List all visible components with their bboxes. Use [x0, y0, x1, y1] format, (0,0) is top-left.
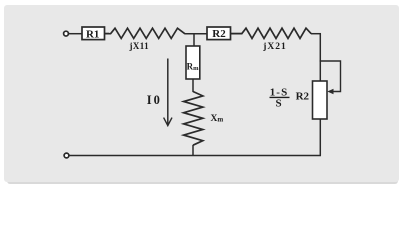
resistor Rm [186, 46, 200, 79]
rheostat wiper arm [320, 61, 341, 92]
rheostat (1-S)/S R2 box [313, 81, 328, 119]
inductor jX11 [105, 28, 185, 51]
resistor R2 [207, 27, 231, 40]
inductor jX21 [231, 28, 312, 52]
panel shadow [7, 9, 398, 184]
wire R1 to jX11 [105, 33, 110, 35]
wire Rm to Xm [192, 79, 194, 92]
rheostat wiper arrowhead [327, 89, 333, 95]
inductor Xm [184, 92, 224, 146]
svg-text:R2: R2 [296, 91, 310, 103]
wire terminal T1 to R1 [69, 33, 83, 35]
wire right vertical (top) [319, 34, 321, 81]
svg-text:I0: I0 [147, 93, 162, 107]
terminal T2 (bottom left) [64, 153, 69, 158]
svg-text:jX21: jX21 [262, 42, 287, 52]
wire node to Rm [193, 34, 195, 46]
wire jX21 to right corner [311, 33, 321, 35]
label fraction (1-S)/S [270, 86, 290, 109]
wire jX11 to R2 with node junction [185, 33, 208, 35]
current arrow I0 [147, 59, 172, 126]
svg-text:R1: R1 [86, 28, 99, 40]
wire right vertical (bottom) [319, 119, 321, 156]
wire Xm to bottom [192, 145, 194, 156]
svg-text:R2: R2 [212, 28, 226, 40]
resistor R1 [82, 27, 105, 40]
svg-text:Xm: Xm [211, 114, 224, 124]
wire bottom [69, 155, 321, 157]
wire R2 to jX21 [231, 33, 243, 35]
svg-text:S: S [275, 97, 281, 109]
svg-text:jX11: jX11 [128, 41, 149, 51]
terminal T1 (top left input) [64, 31, 69, 36]
panel background [4, 5, 399, 182]
